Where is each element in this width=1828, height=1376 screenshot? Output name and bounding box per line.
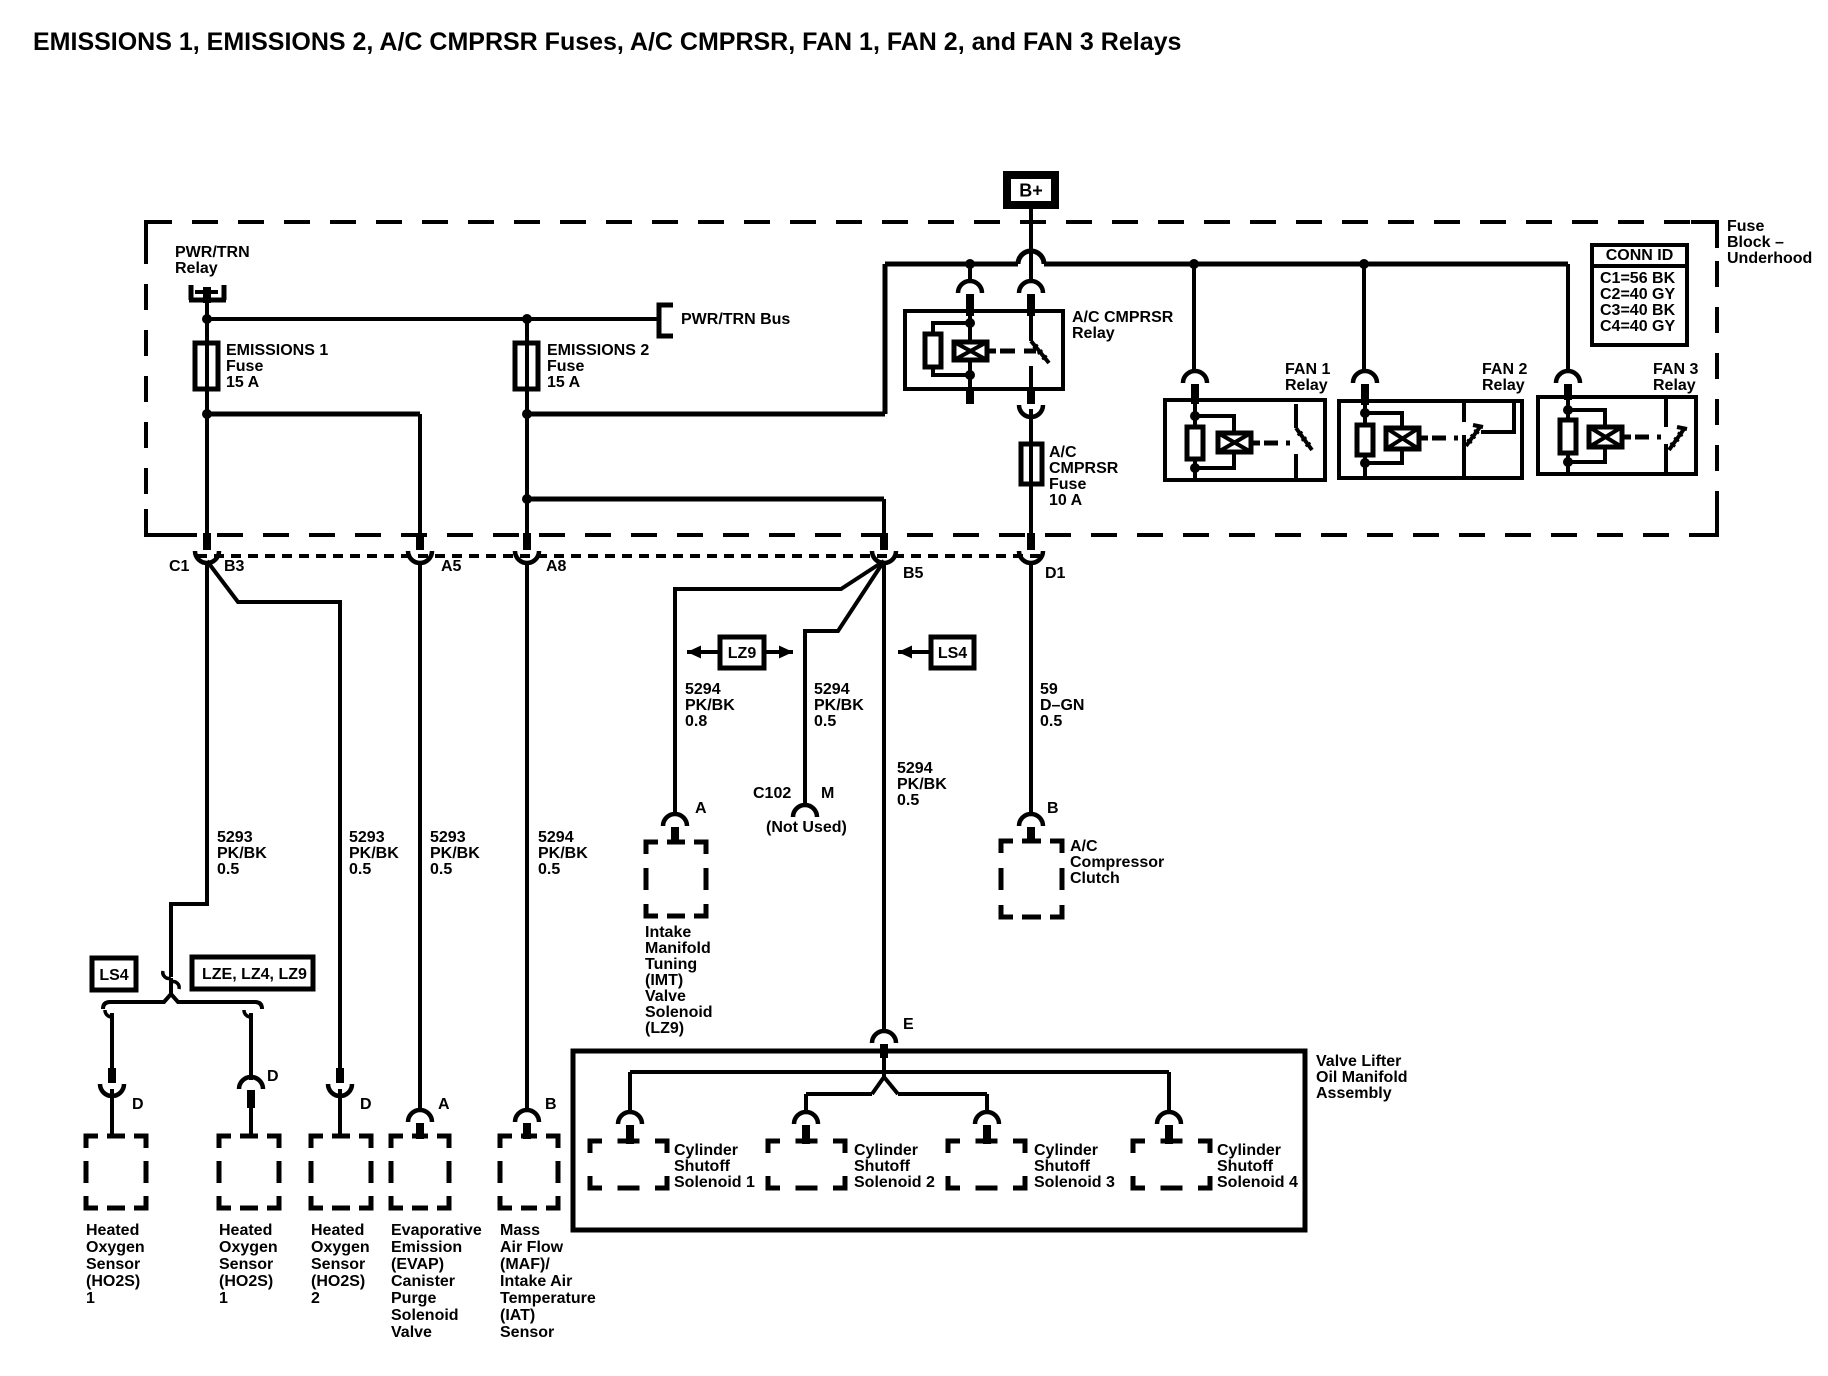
svg-text:A: A xyxy=(438,1096,450,1113)
branch brace xyxy=(103,994,262,1009)
svg-text:B3: B3 xyxy=(224,558,245,575)
svg-text:PK/BK: PK/BK xyxy=(685,697,735,714)
wire bus to FAN1 relay xyxy=(1192,264,1196,372)
svg-text:(MAF)/: (MAF)/ xyxy=(500,1256,550,1273)
svg-text:C1=56 BK: C1=56 BK xyxy=(1600,270,1676,287)
FAN1 upper contact xyxy=(1294,404,1298,428)
wire 59 D-GN xyxy=(1029,561,1033,815)
svg-text:PK/BK: PK/BK xyxy=(538,845,588,862)
connector pin B3 xyxy=(195,551,219,563)
FAN1 coil loop bottom xyxy=(1195,452,1234,468)
connector A/C relay coil pin xyxy=(958,281,982,293)
svg-text:B: B xyxy=(545,1096,557,1113)
FAN2 coil line xyxy=(1363,405,1367,478)
wire to HO2S1 b xyxy=(249,1013,253,1080)
resistor loop xyxy=(933,323,970,375)
EVAP Canister Purge Solenoid Valve xyxy=(391,1136,403,1148)
FAN3 lower contact xyxy=(1664,444,1668,474)
svg-text:Fuse: Fuse xyxy=(547,358,584,375)
coil FAN1 xyxy=(1218,433,1251,452)
svg-text:Oxygen: Oxygen xyxy=(86,1239,145,1256)
svg-text:E: E xyxy=(903,1016,914,1033)
connector D HO2S1a xyxy=(100,1084,124,1096)
FAN2 upper contact xyxy=(1462,401,1466,422)
svg-text:(IAT): (IAT) xyxy=(500,1307,535,1324)
svg-text:Sensor: Sensor xyxy=(219,1256,273,1273)
svg-text:PK/BK: PK/BK xyxy=(349,845,399,862)
splice curl xyxy=(163,971,179,989)
coil FAN3 xyxy=(1589,427,1622,447)
wire down to A5 xyxy=(418,414,422,535)
svg-text:D: D xyxy=(360,1096,372,1113)
junction xyxy=(522,409,532,419)
Heated Oxygen Sensor 2 xyxy=(311,1136,323,1148)
svg-text:C1: C1 xyxy=(169,558,190,575)
svg-text:D: D xyxy=(267,1068,279,1085)
connector D HO2S1b xyxy=(239,1077,263,1089)
svg-text:Heated: Heated xyxy=(86,1222,139,1239)
resistor FAN2 xyxy=(1357,425,1373,455)
svg-text:Valve: Valve xyxy=(391,1324,432,1341)
Cylinder Shutoff Solenoid 4 xyxy=(1133,1141,1145,1153)
svg-text:LS4: LS4 xyxy=(99,967,128,984)
svg-text:Tuning: Tuning xyxy=(645,956,697,973)
wire bus to FAN2 relay xyxy=(1362,264,1366,372)
FAN1 coil loop top xyxy=(1195,416,1234,433)
svg-text:Shutoff: Shutoff xyxy=(854,1158,911,1175)
svg-text:LZ9: LZ9 xyxy=(728,645,757,662)
wire 5294 B5 to E xyxy=(882,561,886,1031)
wire EMISSIONS2 stem xyxy=(525,319,529,535)
svg-text:C102: C102 xyxy=(753,785,791,802)
svg-text:Emission: Emission xyxy=(391,1239,462,1256)
svg-text:A/C CMPRSR: A/C CMPRSR xyxy=(1072,309,1174,326)
svg-text:10 A: 10 A xyxy=(1049,492,1083,509)
switch blade A/C relay xyxy=(1031,341,1049,363)
svg-text:0.5: 0.5 xyxy=(217,861,239,878)
svg-text:(LZ9): (LZ9) xyxy=(645,1020,684,1037)
resistor FAN3 xyxy=(1560,420,1576,453)
FAN3 blade xyxy=(1669,429,1684,450)
FAN1 dashed link xyxy=(1264,441,1290,446)
svg-text:2: 2 xyxy=(311,1290,320,1307)
svg-text:FAN 1: FAN 1 xyxy=(1285,361,1330,378)
wire 5294 A8 to MAF xyxy=(525,561,529,1111)
svg-text:Relay: Relay xyxy=(1072,325,1115,342)
svg-text:Sensor: Sensor xyxy=(500,1324,554,1341)
wire EMISSIONS2 to bus riser xyxy=(527,412,885,417)
main relay coil bus xyxy=(885,262,1018,267)
svg-text:M: M xyxy=(821,785,834,802)
svg-text:Shutoff: Shutoff xyxy=(1217,1158,1274,1175)
svg-text:5293: 5293 xyxy=(217,829,253,846)
svg-text:(Not Used): (Not Used) xyxy=(766,819,847,836)
wire 5293 main xyxy=(171,561,207,977)
svg-text:(HO2S): (HO2S) xyxy=(86,1273,140,1290)
svg-text:D–GN: D–GN xyxy=(1040,697,1084,714)
svg-text:D: D xyxy=(132,1096,144,1113)
svg-text:PWR/TRN Bus: PWR/TRN Bus xyxy=(681,311,790,328)
bus riser xyxy=(883,264,888,414)
svg-text:D1: D1 xyxy=(1045,565,1066,582)
connector pin B5 xyxy=(872,551,896,563)
FAN1 lower contact xyxy=(1294,454,1298,480)
svg-text:Compressor: Compressor xyxy=(1070,854,1164,871)
svg-text:Temperature: Temperature xyxy=(500,1290,596,1307)
connector pin D1 xyxy=(1019,551,1043,563)
svg-text:B5: B5 xyxy=(903,565,924,582)
connector solenoid 3 xyxy=(975,1112,999,1124)
A/C CMPRSR Fuse 10A xyxy=(1021,444,1042,484)
svg-text:PK/BK: PK/BK xyxy=(430,845,480,862)
wire fuse to D1 xyxy=(1029,484,1033,535)
branch wires to shutoff solenoids xyxy=(882,1058,886,1077)
junction xyxy=(1359,259,1369,269)
coil A/C relay xyxy=(954,342,987,360)
wire 5293 A5 to EVAP xyxy=(418,561,422,1111)
svg-text:C2=40 GY: C2=40 GY xyxy=(1600,286,1675,303)
resistor FAN1 xyxy=(1187,427,1203,459)
svg-text:1: 1 xyxy=(219,1290,228,1307)
svg-text:Relay: Relay xyxy=(175,260,218,277)
FAN 2 Relay xyxy=(1353,371,1377,383)
wire 5294 B5 to C102 xyxy=(805,561,884,806)
svg-text:Oxygen: Oxygen xyxy=(311,1239,370,1256)
connector B MAF xyxy=(515,1110,539,1122)
svg-text:Cylinder: Cylinder xyxy=(854,1142,918,1159)
svg-text:Solenoid 1: Solenoid 1 xyxy=(674,1174,755,1191)
svg-text:Air Flow: Air Flow xyxy=(500,1239,564,1256)
svg-text:Oil Manifold: Oil Manifold xyxy=(1316,1069,1408,1086)
svg-text:5294: 5294 xyxy=(685,681,721,698)
svg-text:Shutoff: Shutoff xyxy=(1034,1158,1091,1175)
svg-text:0.5: 0.5 xyxy=(814,713,836,730)
A/C relay box xyxy=(905,311,1063,389)
PWR/TRN Relay symbol xyxy=(189,285,226,303)
wire to HO2S1 a xyxy=(110,1013,114,1068)
FAN1 coil line xyxy=(1193,404,1197,480)
CONN ID table xyxy=(1592,245,1687,345)
coil feed wire xyxy=(968,316,972,342)
svg-text:Manifold: Manifold xyxy=(645,940,711,957)
svg-text:CONN ID: CONN ID xyxy=(1606,247,1674,264)
FAN2 lower contact xyxy=(1462,435,1466,478)
switch fixed contact upper xyxy=(1029,316,1033,341)
wire B+ down to A/C CMPRSR relay xyxy=(1029,209,1033,281)
svg-text:Valve Lifter: Valve Lifter xyxy=(1316,1053,1401,1070)
svg-text:5294: 5294 xyxy=(538,829,574,846)
wire PWR/TRN bus feed xyxy=(207,317,660,321)
FAN2 box xyxy=(1339,401,1522,478)
Valve Lifter Oil Manifold Assembly box xyxy=(573,1051,1305,1230)
svg-text:(EVAP): (EVAP) xyxy=(391,1256,444,1273)
wire bus to A/C relay coil xyxy=(968,264,972,282)
svg-text:5293: 5293 xyxy=(349,829,385,846)
connector pin A5 xyxy=(408,551,432,563)
connector A/C relay output xyxy=(1019,405,1043,417)
svg-text:Fuse: Fuse xyxy=(1049,476,1086,493)
Heated Oxygen Sensor 1 a xyxy=(86,1136,98,1148)
svg-text:Sensor: Sensor xyxy=(311,1256,365,1273)
option arrow LS4 xyxy=(898,646,931,659)
svg-text:Cylinder: Cylinder xyxy=(1217,1142,1281,1159)
svg-text:Solenoid 4: Solenoid 4 xyxy=(1217,1174,1298,1191)
engine option boxes xyxy=(92,958,136,990)
connector A EVAP xyxy=(408,1110,432,1122)
wire 5294 B5 to IMT xyxy=(675,561,884,815)
Heated Oxygen Sensor 1 b xyxy=(219,1136,231,1148)
switch fixed contact lower xyxy=(1029,366,1033,389)
svg-text:1: 1 xyxy=(86,1290,95,1307)
svg-text:Intake Air: Intake Air xyxy=(500,1273,572,1290)
svg-text:Purge: Purge xyxy=(391,1290,436,1307)
svg-text:5293: 5293 xyxy=(430,829,466,846)
connector A IMT xyxy=(663,814,687,826)
svg-text:Relay: Relay xyxy=(1285,377,1328,394)
Cylinder Shutoff Solenoid 2 xyxy=(768,1141,780,1153)
FAN1 blade xyxy=(1296,428,1312,450)
svg-text:CMPRSR: CMPRSR xyxy=(1049,460,1119,477)
svg-text:Assembly: Assembly xyxy=(1316,1085,1392,1102)
svg-text:59: 59 xyxy=(1040,681,1058,698)
junction xyxy=(1189,259,1199,269)
EMISSIONS 1 Fuse 15A xyxy=(195,343,218,389)
svg-text:Fuse: Fuse xyxy=(226,358,263,375)
svg-text:5294: 5294 xyxy=(897,760,933,777)
svg-text:0.5: 0.5 xyxy=(1040,713,1062,730)
svg-text:EMISSIONS 1, EMISSIONS 2, A/C: EMISSIONS 1, EMISSIONS 2, A/C CMPRSR Fus… xyxy=(33,28,1181,56)
svg-text:LS4: LS4 xyxy=(938,645,967,662)
FAN3 coil line xyxy=(1566,400,1570,474)
connector B clutch xyxy=(1019,814,1043,826)
Cylinder Shutoff Solenoid 3 xyxy=(948,1141,960,1153)
FAN2 blade xyxy=(1466,427,1480,446)
wire bus to FAN3 relay xyxy=(1566,264,1570,372)
connector E xyxy=(872,1031,896,1043)
svg-text:A5: A5 xyxy=(441,558,462,575)
svg-text:B: B xyxy=(1047,800,1059,817)
FAN3 dashed link xyxy=(1635,435,1661,440)
svg-text:FAN 3: FAN 3 xyxy=(1653,361,1698,378)
junction xyxy=(965,259,975,269)
connector pin A8 xyxy=(515,551,539,563)
svg-text:0.5: 0.5 xyxy=(430,861,452,878)
svg-text:EMISSIONS 2: EMISSIONS 2 xyxy=(547,342,649,359)
svg-text:LZE, LZ4, LZ9: LZE, LZ4, LZ9 xyxy=(202,966,307,983)
svg-text:(HO2S): (HO2S) xyxy=(311,1273,365,1290)
coil link stub xyxy=(987,349,996,354)
wire down to B5 xyxy=(882,499,886,535)
svg-text:Cylinder: Cylinder xyxy=(674,1142,738,1159)
svg-text:A8: A8 xyxy=(546,558,567,575)
svg-text:Canister: Canister xyxy=(391,1273,455,1290)
A/C Compressor Clutch xyxy=(1001,841,1013,853)
FAN2 dashed link xyxy=(1432,436,1458,441)
connector dotted line xyxy=(197,554,1043,558)
svg-text:Solenoid: Solenoid xyxy=(391,1307,459,1324)
svg-text:C4=40 GY: C4=40 GY xyxy=(1600,318,1675,335)
FAN3 box xyxy=(1538,397,1696,474)
wire to A/C CMPRSR fuse xyxy=(1029,409,1033,444)
wire PWR/TRN relay to C1/B3 xyxy=(205,300,209,535)
Cylinder Shutoff Solenoid 1 xyxy=(590,1141,602,1153)
svg-text:(IMT): (IMT) xyxy=(645,972,683,989)
svg-text:Relay: Relay xyxy=(1482,377,1525,394)
svg-text:(HO2S): (HO2S) xyxy=(219,1273,273,1290)
svg-text:Cylinder: Cylinder xyxy=(1034,1142,1098,1159)
resistor A/C relay xyxy=(925,334,941,367)
connector C102 M not used xyxy=(793,805,817,817)
svg-text:Solenoid 2: Solenoid 2 xyxy=(854,1174,935,1191)
junction xyxy=(202,314,212,324)
svg-text:Solenoid 3: Solenoid 3 xyxy=(1034,1174,1115,1191)
svg-text:C3=40 BK: C3=40 BK xyxy=(1600,302,1676,319)
junction xyxy=(522,314,532,324)
svg-text:PWR/TRN: PWR/TRN xyxy=(175,244,250,261)
svg-text:15 A: 15 A xyxy=(226,374,260,391)
FAN2 output link xyxy=(1481,403,1514,432)
svg-text:A/C: A/C xyxy=(1070,838,1098,855)
svg-text:Heated: Heated xyxy=(219,1222,272,1239)
svg-text:Block –: Block – xyxy=(1727,234,1784,251)
svg-text:PK/BK: PK/BK xyxy=(814,697,864,714)
svg-text:Clutch: Clutch xyxy=(1070,870,1120,887)
IMT Valve Solenoid LZ9 xyxy=(646,842,658,854)
svg-text:15 A: 15 A xyxy=(547,374,581,391)
connector A/C relay switch pin xyxy=(1019,281,1043,293)
svg-text:Intake: Intake xyxy=(645,924,691,941)
svg-text:EMISSIONS 1: EMISSIONS 1 xyxy=(226,342,328,359)
wire 5293 to HO2S 2 xyxy=(207,561,340,1068)
junction xyxy=(522,494,532,504)
svg-text:Solenoid: Solenoid xyxy=(645,1004,713,1021)
svg-text:Sensor: Sensor xyxy=(86,1256,140,1273)
svg-text:5294: 5294 xyxy=(814,681,850,698)
MAF/IAT Sensor xyxy=(500,1136,512,1148)
FAN 1 Relay xyxy=(1183,371,1207,383)
connector D HO2S2 xyxy=(328,1084,352,1096)
option arrow LZ9 xyxy=(687,646,793,659)
svg-text:Relay: Relay xyxy=(1653,377,1696,394)
actuation dashed link xyxy=(1000,349,1036,354)
svg-text:FAN 2: FAN 2 xyxy=(1482,361,1527,378)
battery feed B+ xyxy=(1007,175,1055,205)
FAN3 upper contact xyxy=(1664,397,1668,427)
svg-text:Mass: Mass xyxy=(500,1222,540,1239)
svg-text:Evaporative: Evaporative xyxy=(391,1222,482,1239)
svg-text:PK/BK: PK/BK xyxy=(897,776,947,793)
svg-text:Underhood: Underhood xyxy=(1727,250,1812,267)
FAN1 box xyxy=(1165,400,1325,480)
svg-text:A/C: A/C xyxy=(1049,444,1077,461)
connector solenoid 4 xyxy=(1157,1112,1181,1124)
svg-text:Oxygen: Oxygen xyxy=(219,1239,278,1256)
fuse block underhood dashed border xyxy=(146,222,1717,535)
coil FAN2 xyxy=(1386,428,1419,449)
svg-text:Shutoff: Shutoff xyxy=(674,1158,731,1175)
svg-text:0.8: 0.8 xyxy=(685,713,707,730)
svg-text:B+: B+ xyxy=(1019,180,1043,200)
wire EMISSIONS2 to B5 xyxy=(527,497,884,502)
FAN 3 Relay xyxy=(1556,371,1580,383)
svg-text:Valve: Valve xyxy=(645,988,686,1005)
svg-text:0.5: 0.5 xyxy=(897,792,919,809)
connector solenoid 1 xyxy=(618,1112,642,1124)
svg-text:Heated: Heated xyxy=(311,1222,364,1239)
junction xyxy=(202,409,212,419)
PWR/TRN Bus bracket xyxy=(659,305,673,336)
wire EMISSIONS1 to A5 xyxy=(207,412,420,417)
connector solenoid 2 xyxy=(794,1112,818,1124)
svg-text:0.5: 0.5 xyxy=(349,861,371,878)
svg-text:A: A xyxy=(695,800,707,817)
svg-text:PK/BK: PK/BK xyxy=(217,845,267,862)
svg-text:0.5: 0.5 xyxy=(538,861,560,878)
svg-text:Fuse: Fuse xyxy=(1727,218,1764,235)
